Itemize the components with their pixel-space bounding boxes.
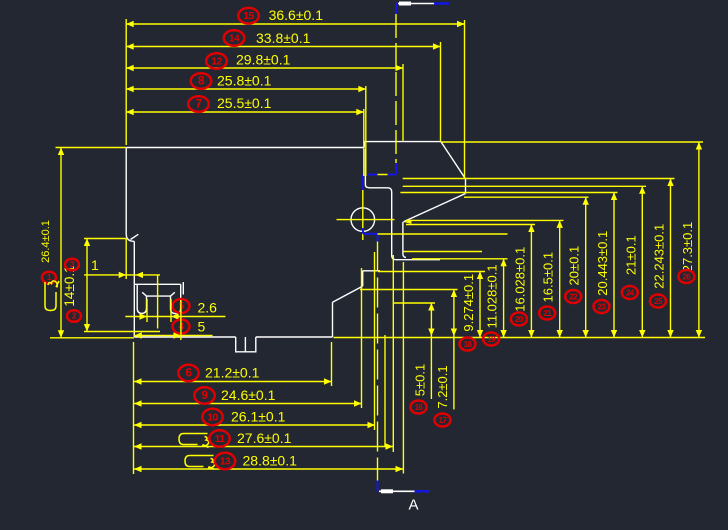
part top edge left bbox=[126, 147, 364, 149]
svg-text:5±0.1: 5±0.1 bbox=[412, 364, 427, 396]
svg-text:A: A bbox=[408, 497, 418, 514]
part channel top edge bbox=[134, 283, 180, 285]
svg-text:27.3±0.1: 27.3±0.1 bbox=[680, 222, 695, 273]
dim 26.4 top stub bbox=[56, 147, 127, 149]
part groove floor bbox=[396, 259, 440, 261]
balloon 14 bbox=[224, 30, 245, 46]
extension line y=142 bbox=[442, 141, 704, 143]
balloon 13 bbox=[215, 453, 235, 469]
ext 25.8 right bbox=[365, 86, 367, 176]
balloon 23 bbox=[594, 300, 610, 313]
svg-text:12: 12 bbox=[211, 57, 222, 68]
dim 22 line 20±0.1 bbox=[585, 197, 587, 337]
svg-text:9.274±0.1: 9.274±0.1 bbox=[461, 274, 476, 332]
part pocket left wall bbox=[365, 149, 368, 188]
ext 27.6 right bbox=[392, 255, 394, 452]
ext 36.6 right bbox=[464, 20, 466, 179]
svg-text:33.8±0.1: 33.8±0.1 bbox=[256, 30, 311, 46]
dim 9 line 24.6±0.1 bbox=[134, 403, 362, 405]
extension line y=234 bbox=[378, 233, 508, 235]
section jog upper blue a bbox=[367, 174, 378, 176]
svg-text:16: 16 bbox=[415, 403, 424, 412]
part bottom edge left bbox=[134, 336, 235, 338]
svg-text:11.028±0.1: 11.028±0.1 bbox=[485, 264, 500, 328]
dim 6 line 21.2±0.1 bbox=[134, 381, 332, 383]
ext 25.5 right bbox=[363, 109, 365, 176]
svg-text:7.2±0.1: 7.2±0.1 bbox=[435, 365, 450, 408]
part channel left slot bbox=[137, 284, 146, 313]
dim 14 line 33.8±0.1 bbox=[126, 46, 440, 48]
dim 2.6 line bbox=[125, 316, 225, 318]
part nose upper slant bbox=[441, 142, 466, 179]
ext channel right bbox=[170, 299, 172, 322]
extension line y=178.5 bbox=[403, 178, 675, 180]
part top step bbox=[363, 142, 365, 148]
svg-text:27.6±0.1: 27.6±0.1 bbox=[237, 430, 292, 446]
ext 28.8 right bbox=[402, 262, 404, 474]
ext channel left bbox=[146, 299, 148, 322]
svg-text:22: 22 bbox=[569, 292, 578, 301]
dim 12 line 29.8±0.1 bbox=[126, 67, 403, 69]
extension line y=251.5 bbox=[403, 251, 482, 253]
svg-text:5: 5 bbox=[198, 319, 206, 335]
svg-text:20.443±0.1: 20.443±0.1 bbox=[595, 231, 610, 296]
balloon 4 bbox=[173, 320, 190, 334]
part lower right wall bbox=[332, 302, 334, 337]
dim 23 line 20.443±0.1 bbox=[613, 193, 615, 338]
balloon 7 bbox=[188, 96, 209, 112]
svg-text:16.028±0.1: 16.028±0.1 bbox=[512, 247, 527, 312]
part channel right wall bbox=[171, 284, 181, 313]
ext 24.6 right bbox=[361, 268, 363, 408]
extension line y=258.8 bbox=[412, 258, 508, 260]
dim 14 line bbox=[86, 239, 88, 332]
dim 17 line 7.2±0.1 bbox=[453, 290, 455, 410]
ext line inner bbox=[384, 335, 386, 447]
part left edge chamfer stub bbox=[131, 234, 139, 239]
dim 20 line 16.028±0.1 bbox=[530, 225, 532, 338]
dim 1 line bbox=[84, 274, 160, 276]
dim 26.4 line bbox=[60, 148, 62, 338]
dim 24 line 21±0.1 bbox=[641, 186, 643, 337]
part bottom notch bbox=[236, 337, 256, 352]
part pocket wall bbox=[392, 192, 396, 260]
balloon 5 bbox=[173, 299, 190, 313]
balloon 9 bbox=[194, 387, 214, 403]
part left edge upper bbox=[126, 148, 134, 242]
balloon 25 bbox=[650, 295, 666, 308]
svg-text:14±0.1: 14±0.1 bbox=[62, 265, 77, 306]
svg-text:36.6±0.1: 36.6±0.1 bbox=[269, 7, 324, 23]
svg-text:26.4±0.1: 26.4±0.1 bbox=[40, 220, 52, 263]
section marker bottom thick bbox=[381, 489, 393, 493]
svg-text:25.5±0.1: 25.5±0.1 bbox=[217, 95, 272, 111]
part top edge right bbox=[364, 141, 441, 143]
dim 14 top stub bbox=[84, 238, 126, 240]
balloon 10 bbox=[202, 409, 222, 425]
section line top vertical bbox=[395, 14, 397, 163]
bottom dims left extension line bbox=[133, 342, 135, 474]
dim 18 line 9.274±0.1 bbox=[479, 272, 481, 338]
part lower diagonal bbox=[333, 286, 363, 302]
ext channel wall bbox=[180, 300, 182, 340]
section blue above circle bbox=[362, 175, 364, 191]
dim 14 bottom stub bbox=[84, 331, 160, 333]
section marker top thick bbox=[399, 2, 411, 6]
svg-text:28.8±0.1: 28.8±0.1 bbox=[243, 453, 298, 469]
svg-text:26: 26 bbox=[683, 272, 692, 281]
svg-text:2.6: 2.6 bbox=[198, 300, 218, 316]
extension line y=186.3 bbox=[403, 185, 646, 187]
dim 21 line 16.5±0.1 bbox=[559, 220, 561, 337]
balloon 22 bbox=[565, 290, 581, 303]
ext pair leader arrow bbox=[404, 220, 412, 224]
svg-text:10: 10 bbox=[207, 413, 218, 424]
section marker bottom white bbox=[379, 490, 415, 492]
svg-text:13: 13 bbox=[220, 457, 231, 468]
part pocket floor bbox=[369, 188, 392, 192]
part lower step wall bbox=[362, 271, 364, 286]
balloon 8 bbox=[191, 73, 212, 89]
dim 8 line 25.8±0.1 bbox=[126, 88, 366, 90]
svg-text:19: 19 bbox=[487, 335, 496, 344]
svg-text:21.2±0.1: 21.2±0.1 bbox=[205, 365, 260, 381]
section jog lower blue drop bbox=[377, 234, 379, 242]
extension line y=197.2 bbox=[464, 196, 589, 198]
extension line y=224.5 bbox=[406, 224, 535, 226]
balloon 26 bbox=[678, 270, 694, 283]
svg-text:8: 8 bbox=[198, 74, 205, 88]
svg-text:17: 17 bbox=[439, 416, 448, 425]
balloon 12 bbox=[206, 53, 227, 69]
balloon 21 bbox=[539, 307, 555, 320]
dim 26 line 27.3±0.1 bbox=[698, 142, 700, 338]
part channel tongue top bbox=[147, 295, 171, 297]
svg-text:24: 24 bbox=[626, 288, 635, 297]
svg-text:22.243±0.1: 22.243±0.1 bbox=[652, 224, 667, 289]
svg-text:1: 1 bbox=[91, 257, 99, 273]
svg-text:15: 15 bbox=[243, 11, 254, 22]
balloon 17 bbox=[435, 414, 451, 427]
extension line y=192.5 bbox=[400, 192, 617, 194]
section line blue elbow upper bbox=[395, 163, 397, 175]
balloon 20 bbox=[511, 313, 527, 326]
balloon 18 bbox=[460, 338, 476, 351]
balloon 1 bbox=[42, 272, 56, 284]
section blue below circle bbox=[362, 228, 364, 234]
svg-text:7: 7 bbox=[196, 97, 203, 111]
part channel outer wall stub bbox=[182, 282, 184, 295]
ext 26.1 right bbox=[374, 252, 376, 430]
part nose tip edge bbox=[465, 179, 467, 194]
right dims baseline bbox=[334, 337, 706, 339]
extension line y=271.5 bbox=[378, 271, 485, 273]
balloon 24 bbox=[622, 286, 638, 299]
svg-text:21: 21 bbox=[543, 309, 552, 318]
part left edge lower bbox=[133, 241, 135, 337]
dim 13 line 28.8±0.1 bbox=[134, 468, 403, 470]
ext 29.8 right bbox=[402, 64, 404, 141]
locating circle bbox=[351, 208, 375, 232]
part lower step edge bbox=[363, 270, 380, 272]
dim 19 line 11.028±0.1 bbox=[503, 259, 505, 338]
balloon 3 bbox=[65, 259, 79, 271]
section marker top blue bbox=[434, 2, 449, 4]
balloon 2 bbox=[67, 310, 81, 322]
dim 13 modifier glyph bbox=[185, 456, 215, 470]
ext left edge step bbox=[125, 239, 127, 280]
section jog lower blue bbox=[363, 233, 378, 235]
part channel right chamfer bbox=[171, 292, 175, 296]
ext 21.2 right bbox=[331, 342, 333, 386]
part nose underside wall bbox=[403, 222, 406, 258]
svg-text:21±0.1: 21±0.1 bbox=[623, 235, 638, 275]
dim 10 line 26.1±0.1 bbox=[134, 424, 375, 426]
svg-text:16.5±0.1: 16.5±0.1 bbox=[541, 252, 556, 303]
part nose lower slant bbox=[404, 194, 466, 222]
dim 7 line 25.5±0.1 bbox=[126, 111, 364, 113]
extension line y=303 bbox=[393, 302, 435, 304]
svg-text:25: 25 bbox=[654, 297, 663, 306]
svg-text:18: 18 bbox=[464, 340, 473, 349]
ext small mid bbox=[157, 275, 159, 329]
section jog upper yellow bbox=[377, 174, 396, 176]
dim 5 line bbox=[134, 335, 213, 337]
section marker top white bbox=[398, 3, 434, 5]
svg-text:20: 20 bbox=[515, 315, 524, 324]
balloon 19 bbox=[483, 333, 499, 346]
svg-text:25.8±0.1: 25.8±0.1 bbox=[217, 73, 272, 89]
part channel left chamfer bbox=[142, 292, 146, 296]
balloon 11 bbox=[209, 430, 229, 446]
ext 33.8 right bbox=[440, 42, 442, 142]
top dims left extension line bbox=[125, 19, 127, 145]
dim 15 line 36.6±0.1 bbox=[126, 23, 464, 25]
dim 26.4 bottom stub bbox=[50, 337, 134, 339]
dim 11 modifier glyph bbox=[179, 434, 209, 448]
balloon 15 bbox=[238, 8, 259, 24]
svg-text:20±0.1: 20±0.1 bbox=[567, 246, 582, 286]
dim 11 line 27.6±0.1 bbox=[134, 446, 393, 448]
section marker bottom blue bbox=[415, 490, 431, 492]
svg-text:29.8±0.1: 29.8±0.1 bbox=[236, 52, 291, 68]
balloon 1 modifier glyph bbox=[45, 281, 59, 311]
part bottom notch stub bbox=[244, 337, 246, 352]
svg-text:11: 11 bbox=[215, 434, 226, 445]
svg-text:24.6±0.1: 24.6±0.1 bbox=[221, 387, 276, 403]
circle crosshair vertical bbox=[362, 190, 364, 240]
circle crosshair horizontal bbox=[337, 219, 395, 221]
svg-text:26.1±0.1: 26.1±0.1 bbox=[231, 409, 286, 425]
section line bottom vertical bbox=[377, 242, 379, 481]
section line bottom blue tick bbox=[377, 481, 379, 492]
part bottom edge right bbox=[256, 336, 333, 338]
svg-text:23: 23 bbox=[598, 302, 607, 311]
section line top blue tick bbox=[395, 3, 397, 15]
balloon 6 bbox=[178, 365, 198, 381]
svg-text:14: 14 bbox=[229, 34, 240, 45]
balloon 16 bbox=[411, 401, 427, 414]
extension line y=220.4 bbox=[406, 219, 564, 221]
extension line y=289.5 bbox=[360, 289, 458, 291]
section jog upper blue b bbox=[388, 174, 397, 176]
dim 25 line 22.243±0.1 bbox=[670, 179, 672, 338]
dim 16 line 5±0.1 bbox=[430, 303, 432, 399]
